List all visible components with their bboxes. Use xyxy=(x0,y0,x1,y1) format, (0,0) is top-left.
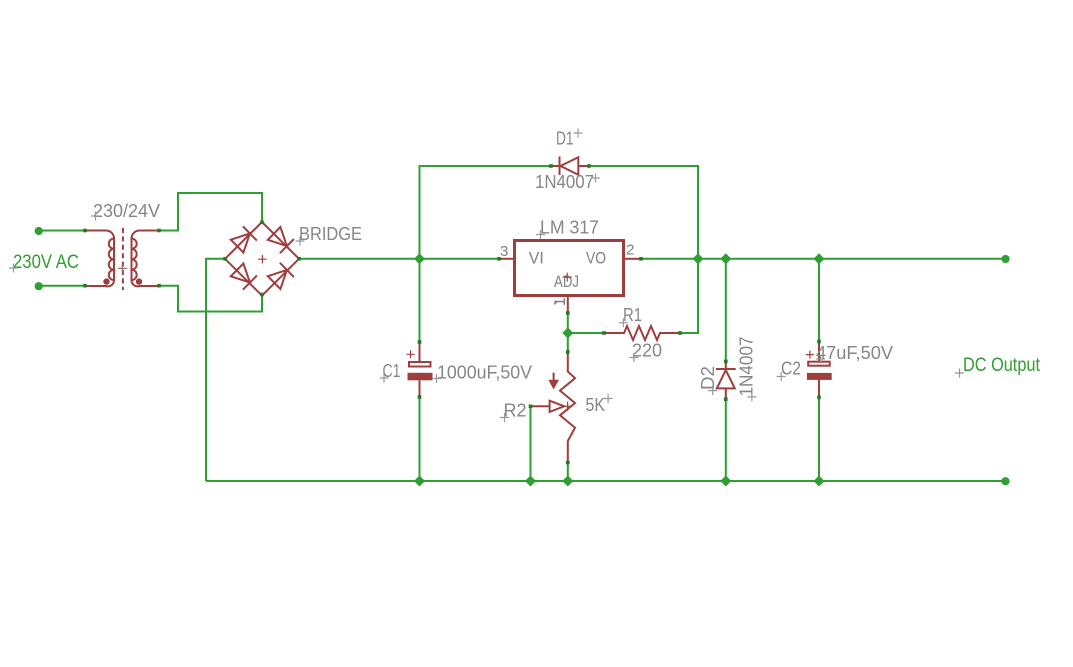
junction C2 bottom xyxy=(814,476,825,487)
svg-text:5K: 5K xyxy=(586,395,606,415)
wire node to R1 xyxy=(568,332,604,334)
capacitor C2 top lead xyxy=(818,342,820,361)
origin cross 230V AC xyxy=(9,264,18,273)
wire C2 top xyxy=(818,259,820,342)
origin cross C2 value xyxy=(816,355,825,364)
terminal AC bottom xyxy=(35,282,43,290)
junction pot bottom xyxy=(562,476,573,487)
regulator U1 pin VO lead xyxy=(625,258,641,260)
svg-text:D1: D1 xyxy=(556,129,574,149)
wire secondary bottom to bridge xyxy=(159,286,262,312)
bridge diode top-left xyxy=(231,226,257,252)
origin cross R2 name xyxy=(500,413,509,422)
wire C1 bottom xyxy=(419,397,421,481)
diode D2 triangle xyxy=(717,370,735,388)
diode D2 cathode bar xyxy=(716,368,736,370)
svg-text:2: 2 xyxy=(626,242,634,259)
potentiometer R2 wiper arrowhead xyxy=(550,401,565,412)
pin number 1 xyxy=(554,298,564,305)
svg-text:LM 317: LM 317 xyxy=(540,218,599,238)
junction D1 right xyxy=(693,253,704,264)
origin cross D1 value xyxy=(591,174,600,183)
svg-text:R1: R1 xyxy=(623,305,642,325)
bridge rectifier outline xyxy=(225,222,299,296)
svg-text:D2: D2 xyxy=(698,366,718,390)
regulator U1 origin cross xyxy=(563,273,572,282)
wire AC bottom terminal lead xyxy=(38,285,85,287)
origin cross R1 value xyxy=(629,353,638,362)
wire node to pot R2 xyxy=(567,333,569,352)
wire secondary top to bridge xyxy=(159,193,262,231)
capacitor C1 bottom plate xyxy=(408,373,433,381)
svg-text:230/24V: 230/24V xyxy=(93,201,160,221)
origin cross D1 name xyxy=(574,129,583,138)
terminal DC output plus xyxy=(1001,255,1009,263)
regulator U1 pin VI lead xyxy=(499,258,513,260)
svg-text:ADJ: ADJ xyxy=(554,272,579,291)
junction ADJ node xyxy=(562,328,573,339)
transformer TR1 origin cross xyxy=(118,264,127,273)
regulator U1 LM317 body xyxy=(515,241,624,296)
svg-text:C2: C2 xyxy=(781,359,801,379)
potentiometer R2 body xyxy=(560,352,575,463)
junction C1 top xyxy=(414,253,425,264)
origin cross R2 value xyxy=(604,394,613,403)
capacitor C1 plus sign xyxy=(407,350,415,358)
transformer TR1 core xyxy=(122,228,124,290)
potentiometer R2 origin cross xyxy=(563,402,572,411)
bridge diode top-right xyxy=(268,227,294,253)
terminal DC output minus xyxy=(1001,477,1009,485)
svg-text:1N4007: 1N4007 xyxy=(535,172,594,192)
wire bridge plus to VI xyxy=(299,258,499,260)
capacitor C1 bottom lead xyxy=(419,380,421,397)
transformer TR1 secondary winding spine xyxy=(131,237,133,281)
wire AC top terminal lead xyxy=(38,230,85,232)
capacitor C2 bottom lead xyxy=(818,380,820,398)
pin contact dots xyxy=(83,164,821,464)
wire bottom rail xyxy=(206,480,1006,482)
wire pot bottom to rail xyxy=(567,463,569,482)
origin cross D2 value xyxy=(747,392,756,401)
origin cross C1 value xyxy=(432,374,441,383)
bridge diode bottom-left xyxy=(231,264,257,290)
transformer TR1 secondary winding xyxy=(131,231,159,287)
svg-text:VI: VI xyxy=(529,249,544,268)
wire VO to DC output xyxy=(641,258,1006,260)
terminal AC top xyxy=(35,227,43,235)
junction C2 top xyxy=(814,253,825,264)
origin cross DC Output xyxy=(955,369,964,378)
transformer TR1 primary winding spine xyxy=(113,237,115,281)
transformer TR1 primary polarity dot xyxy=(103,278,109,284)
wire C1 top xyxy=(419,259,421,342)
bridge diode bottom-right xyxy=(268,263,294,289)
bridge plus mark xyxy=(258,255,266,263)
transformer TR1 secondary polarity dot xyxy=(136,278,142,284)
svg-text:DC Output: DC Output xyxy=(963,355,1041,376)
resistor R1 xyxy=(604,326,680,340)
wire D1 left branch xyxy=(420,166,552,259)
svg-text:1000uF,50V: 1000uF,50V xyxy=(437,363,532,383)
capacitor C2 plus sign xyxy=(806,351,814,359)
junction wiper bottom xyxy=(525,476,536,487)
origin cross D2 name xyxy=(708,386,717,395)
diode D1 triangle xyxy=(561,157,579,175)
wire C2 bottom xyxy=(818,397,820,481)
wire bridge minus to bottom rail xyxy=(206,259,225,481)
transformer TR1 primary winding xyxy=(85,231,114,287)
origin cross 230/24V xyxy=(91,212,100,221)
regulator U1 pin ADJ lead xyxy=(567,296,569,313)
svg-text:47uF,50V: 47uF,50V xyxy=(816,343,893,363)
origin cross R1 name xyxy=(619,318,628,327)
svg-text:BRIDGE: BRIDGE xyxy=(299,224,362,244)
svg-text:VO: VO xyxy=(586,249,606,268)
origin cross C1 name xyxy=(380,374,389,383)
diode D1 cathode bar xyxy=(559,157,561,176)
capacitor C1 top lead xyxy=(419,342,421,361)
origin cross LM 317 xyxy=(536,230,545,239)
origin cross BRIDGE xyxy=(296,237,305,246)
svg-text:3: 3 xyxy=(500,243,508,260)
diode D2 leads xyxy=(725,361,727,399)
svg-text:230V AC: 230V AC xyxy=(13,252,79,273)
capacitor C2 top plate xyxy=(808,362,830,366)
capacitor C1 top plate xyxy=(409,362,431,367)
svg-text:1N4007: 1N4007 xyxy=(737,337,757,397)
diode D1 leads xyxy=(551,165,589,167)
wire D2 top xyxy=(725,259,727,362)
capacitor C2 bottom plate xyxy=(807,373,832,380)
wire ADJ to node xyxy=(567,313,569,333)
wire wiper down to rail xyxy=(530,406,532,481)
wire D2 bottom xyxy=(725,399,727,481)
junction D2 bottom xyxy=(720,476,731,487)
potentiometer R2 top arrowhead xyxy=(548,380,559,390)
junction C1 bottom xyxy=(414,476,425,487)
wire D1 right branch down to R1 xyxy=(589,166,698,333)
junction D2 top xyxy=(720,253,731,264)
potentiometer R2 wiper lead xyxy=(531,405,550,407)
potentiometer R2 top arrow shaft xyxy=(553,373,555,382)
origin cross C2 name xyxy=(777,372,786,381)
